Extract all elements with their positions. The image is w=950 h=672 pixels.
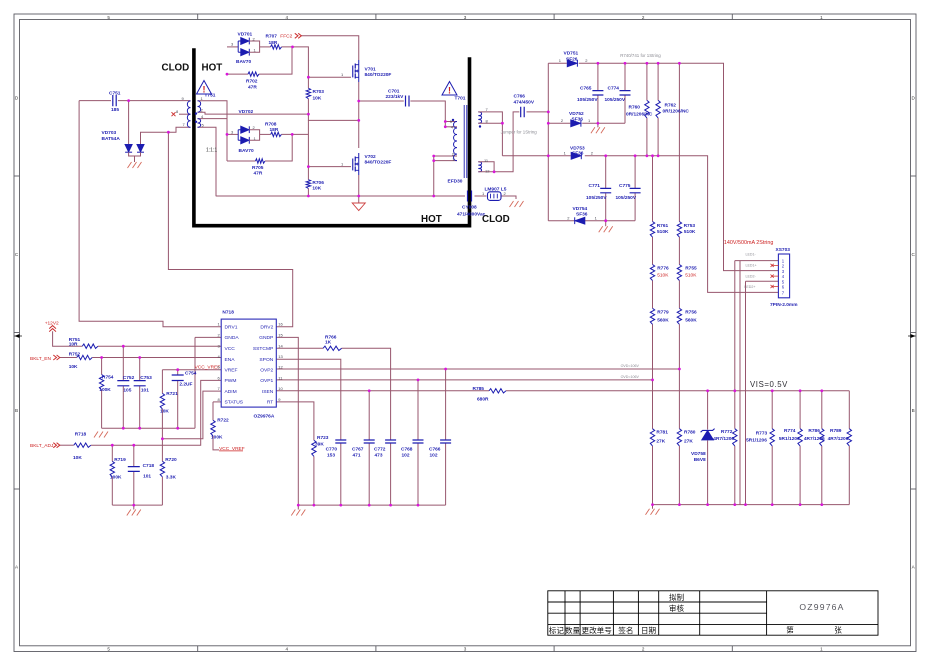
svg-text:1K: 1K — [325, 340, 332, 346]
svg-text:B6V8: B6V8 — [694, 457, 706, 463]
svg-text:R722: R722 — [217, 418, 229, 424]
svg-text:R740/741 for 1String: R740/741 for 1String — [620, 53, 661, 58]
svg-text:ISEN: ISEN — [262, 389, 274, 395]
svg-text:13: 13 — [278, 354, 283, 359]
svg-text:12: 12 — [278, 365, 283, 370]
svg-text:2: 2 — [642, 646, 645, 651]
svg-text:10K: 10K — [313, 95, 322, 101]
svg-text:10K: 10K — [312, 186, 321, 192]
svg-text:VD751: VD751 — [564, 51, 579, 57]
svg-text:510K: 510K — [657, 229, 669, 235]
svg-text:C752: C752 — [123, 375, 135, 381]
svg-text:223/1kV: 223/1kV — [386, 94, 405, 100]
svg-text:5R1/1206: 5R1/1206 — [779, 436, 800, 442]
svg-text:C766: C766 — [514, 94, 526, 100]
svg-text:C718: C718 — [143, 463, 155, 469]
svg-text:VREF: VREF — [225, 368, 238, 374]
svg-text:BAT54A: BAT54A — [102, 136, 121, 142]
svg-text:HOT: HOT — [202, 62, 223, 73]
svg-text:日期: 日期 — [641, 626, 657, 635]
svg-text:473: 473 — [375, 452, 383, 458]
svg-text:SF26: SF26 — [566, 56, 578, 62]
svg-text:105/250V: 105/250V — [616, 195, 637, 201]
svg-text:5R1/1206: 5R1/1206 — [746, 437, 767, 443]
svg-text:VCC: VCC — [225, 346, 236, 352]
svg-text:HOT: HOT — [421, 214, 442, 225]
svg-text:105: 105 — [123, 387, 131, 393]
svg-text:560K: 560K — [657, 317, 669, 323]
svg-text:102: 102 — [430, 452, 438, 458]
svg-text:OVP1: OVP1 — [260, 378, 273, 384]
svg-text:R754: R754 — [102, 375, 114, 381]
svg-text:R779: R779 — [657, 309, 669, 315]
svg-text:R766: R766 — [325, 334, 337, 340]
svg-text:BAV70: BAV70 — [236, 59, 251, 65]
svg-text:ENA: ENA — [225, 357, 236, 363]
svg-text:153: 153 — [327, 452, 335, 458]
svg-text:VCC_VREF: VCC_VREF — [195, 365, 221, 371]
svg-text:LED2-: LED2- — [746, 275, 757, 279]
svg-text:第: 第 — [786, 624, 794, 634]
svg-text:SSTCMP: SSTCMP — [253, 346, 273, 352]
svg-text:ADIM: ADIM — [225, 389, 237, 395]
svg-text:510K: 510K — [684, 229, 696, 235]
svg-text:张: 张 — [834, 625, 842, 634]
svg-text:RT: RT — [267, 400, 273, 406]
svg-text:R707: R707 — [266, 34, 278, 40]
svg-text:PWM: PWM — [225, 378, 237, 384]
svg-text:140V/500mA 2String: 140V/500mA 2String — [724, 240, 773, 246]
svg-text:105/250V: 105/250V — [586, 195, 607, 201]
svg-text:105/250V: 105/250V — [577, 97, 598, 103]
svg-text:47R: 47R — [248, 84, 257, 90]
svg-text:SF36: SF36 — [572, 150, 584, 156]
svg-text:B: B — [912, 408, 915, 413]
svg-text:R755: R755 — [685, 265, 697, 271]
svg-text:18R: 18R — [270, 127, 279, 133]
svg-text:840/TO220F: 840/TO220F — [365, 160, 392, 166]
svg-text:SPON: SPON — [259, 357, 273, 363]
svg-text:GNDP: GNDP — [259, 335, 273, 341]
svg-text:FFC2: FFC2 — [280, 34, 292, 40]
svg-text:CY908: CY908 — [462, 205, 477, 211]
svg-text:C767: C767 — [352, 446, 364, 452]
svg-text:3: 3 — [464, 646, 467, 651]
svg-text:R776: R776 — [657, 265, 669, 271]
svg-text:VIS=0.5V: VIS=0.5V — [750, 380, 788, 389]
svg-text:27K: 27K — [684, 438, 693, 444]
svg-text:R761: R761 — [657, 223, 669, 229]
svg-text:OVD=106V: OVD=106V — [621, 375, 640, 379]
svg-text:C766: C766 — [429, 446, 441, 452]
svg-text:R756: R756 — [685, 309, 697, 315]
svg-text:4R7/1206: 4R7/1206 — [804, 436, 825, 442]
svg-text:XS703: XS703 — [776, 247, 791, 253]
svg-text:R762: R762 — [665, 102, 677, 108]
svg-text:BAV70: BAV70 — [239, 148, 254, 154]
svg-text:471: 471 — [353, 452, 361, 458]
svg-text:R772: R772 — [721, 429, 733, 435]
svg-text:R785: R785 — [473, 386, 485, 392]
svg-text:BKLT_ADJ: BKLT_ADJ — [30, 443, 54, 449]
svg-text:审核: 审核 — [669, 603, 685, 613]
svg-text:510K: 510K — [685, 272, 697, 278]
svg-text:C770: C770 — [326, 446, 338, 452]
svg-text:16: 16 — [278, 322, 283, 327]
svg-text:C753: C753 — [140, 375, 152, 381]
svg-text:GNDA: GNDA — [225, 335, 240, 341]
svg-text:10: 10 — [278, 386, 283, 391]
svg-text:7PIN-2.0mm: 7PIN-2.0mm — [770, 302, 797, 308]
svg-text:VD701: VD701 — [238, 32, 253, 38]
svg-text:471/4000Vac: 471/4000Vac — [457, 212, 486, 218]
svg-text:5: 5 — [107, 15, 110, 20]
svg-text:R789: R789 — [830, 428, 842, 434]
svg-text:+12V2: +12V2 — [45, 321, 59, 327]
svg-text:VCC_VREF: VCC_VREF — [219, 446, 245, 452]
svg-text:!: ! — [448, 86, 451, 96]
svg-text:4R7/1206: 4R7/1206 — [828, 436, 849, 442]
svg-text:100K: 100K — [110, 474, 122, 480]
svg-text:1:1:1: 1:1:1 — [206, 148, 217, 154]
svg-text:标记: 标记 — [549, 625, 565, 635]
svg-text:V701: V701 — [365, 66, 377, 72]
svg-text:15: 15 — [278, 332, 283, 337]
svg-text:0R/1206/NC: 0R/1206/NC — [663, 109, 690, 115]
svg-text:Jumper for 1String: Jumper for 1String — [501, 130, 538, 135]
svg-text:680R: 680R — [477, 396, 489, 402]
svg-text:560K: 560K — [685, 317, 697, 323]
svg-text:4: 4 — [286, 15, 289, 20]
svg-text:R786: R786 — [808, 428, 820, 434]
svg-text:更改单号: 更改单号 — [582, 625, 613, 635]
svg-text:3: 3 — [464, 15, 467, 20]
svg-text:VD752: VD752 — [569, 111, 584, 117]
svg-text:OVD=106V: OVD=106V — [621, 364, 640, 368]
svg-text:10K: 10K — [73, 455, 82, 461]
svg-text:V702: V702 — [365, 154, 377, 160]
svg-text:C772: C772 — [374, 446, 386, 452]
svg-text:VD702: VD702 — [239, 109, 254, 115]
svg-text:39K: 39K — [315, 441, 324, 447]
svg-text:510K: 510K — [657, 272, 669, 278]
svg-text:C765: C765 — [580, 85, 592, 91]
svg-text:EFD30: EFD30 — [448, 179, 463, 185]
svg-text:10K: 10K — [69, 364, 78, 370]
svg-text:B: B — [15, 408, 18, 413]
svg-text:47R: 47R — [254, 170, 263, 176]
svg-text:R721: R721 — [166, 391, 178, 397]
svg-text:T701: T701 — [455, 96, 466, 102]
svg-text:R718: R718 — [75, 431, 87, 437]
svg-text:27K: 27K — [656, 438, 665, 444]
svg-text:14: 14 — [278, 343, 283, 348]
svg-text:R752: R752 — [69, 351, 81, 357]
svg-text:R708: R708 — [265, 121, 277, 127]
svg-text:C771: C771 — [589, 183, 601, 189]
svg-text:CLOD: CLOD — [482, 214, 510, 225]
svg-text:CLOD: CLOD — [162, 62, 190, 73]
svg-text:C768: C768 — [401, 446, 413, 452]
svg-text:R723: R723 — [317, 435, 329, 441]
svg-text:VD758: VD758 — [691, 451, 706, 457]
svg-text:R705: R705 — [252, 165, 264, 171]
svg-text:R780: R780 — [684, 429, 696, 435]
svg-text:0R/1206/NC: 0R/1206/NC — [626, 111, 653, 117]
svg-text:102: 102 — [402, 452, 410, 458]
svg-text:R706: R706 — [312, 180, 324, 186]
svg-text:10R: 10R — [69, 342, 78, 348]
svg-text:5: 5 — [107, 646, 110, 651]
svg-text:数量: 数量 — [565, 625, 581, 635]
svg-text:DRV1: DRV1 — [225, 325, 238, 331]
svg-text:BKLT_EN: BKLT_EN — [30, 356, 52, 362]
svg-text:2.2UF: 2.2UF — [179, 382, 192, 388]
svg-text:R720: R720 — [165, 457, 177, 463]
svg-text:LED2+: LED2+ — [744, 285, 755, 289]
svg-text:840/TO220F: 840/TO220F — [365, 72, 392, 78]
svg-text:101: 101 — [141, 387, 149, 393]
svg-text:105/250V: 105/250V — [605, 97, 626, 103]
svg-text:12: 12 — [485, 169, 490, 174]
svg-text:100K: 100K — [99, 387, 111, 393]
svg-text:SF36: SF36 — [572, 117, 584, 123]
svg-text:LED1+: LED1+ — [746, 264, 757, 268]
svg-text:185: 185 — [111, 107, 119, 113]
svg-text:T751: T751 — [205, 93, 216, 99]
svg-text:R719: R719 — [114, 457, 126, 463]
svg-text:R753: R753 — [684, 223, 696, 229]
svg-text:1: 1 — [820, 15, 823, 20]
svg-text:474/450V: 474/450V — [514, 100, 535, 106]
svg-text:101: 101 — [143, 473, 151, 479]
svg-text:OZ9976A: OZ9976A — [799, 602, 844, 612]
svg-text:3.3K: 3.3K — [166, 474, 177, 480]
svg-text:VD703: VD703 — [102, 130, 117, 136]
svg-text:1: 1 — [820, 646, 823, 651]
svg-text:C751: C751 — [109, 91, 121, 97]
svg-text:R703: R703 — [313, 89, 325, 95]
svg-text:18R: 18R — [269, 40, 278, 46]
svg-text:C754: C754 — [185, 371, 197, 377]
svg-text:10K: 10K — [160, 408, 169, 414]
svg-text:OZ9976A: OZ9976A — [254, 413, 275, 419]
svg-text:DRV2: DRV2 — [260, 325, 273, 331]
svg-text:VD754: VD754 — [573, 206, 588, 212]
svg-text:R774: R774 — [784, 428, 796, 434]
svg-text:100K: 100K — [211, 435, 223, 441]
svg-text:SF36: SF36 — [576, 211, 588, 217]
svg-text:C774: C774 — [608, 85, 620, 91]
svg-text:4R7/1206: 4R7/1206 — [713, 436, 734, 442]
svg-text:C701: C701 — [388, 88, 400, 94]
svg-text:C775: C775 — [619, 183, 631, 189]
svg-text:STATUS: STATUS — [225, 400, 244, 406]
svg-text:OVP2: OVP2 — [260, 368, 273, 374]
svg-text:R773: R773 — [756, 431, 768, 437]
svg-text:LED1-: LED1- — [746, 253, 757, 257]
svg-text:4: 4 — [286, 646, 289, 651]
svg-text:R760: R760 — [629, 104, 641, 110]
svg-text:N718: N718 — [222, 310, 234, 316]
svg-text:R781: R781 — [656, 429, 668, 435]
svg-text:R702: R702 — [246, 79, 258, 85]
svg-text:2: 2 — [642, 15, 645, 20]
svg-text:拟制: 拟制 — [669, 592, 685, 602]
svg-text:签名: 签名 — [618, 625, 633, 635]
